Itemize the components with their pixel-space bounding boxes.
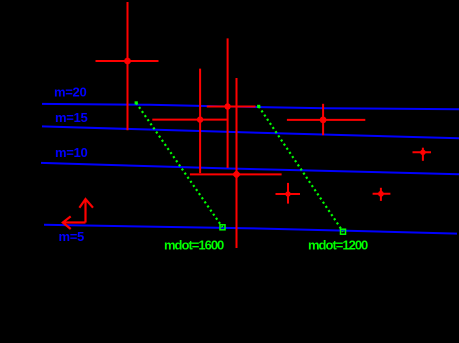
model line m=20 (42, 104, 459, 109)
data point P3 (224, 103, 230, 109)
start marker mdot=1600 (135, 101, 138, 104)
up arrow shaft (84, 199, 86, 223)
data point P5 (320, 117, 327, 124)
data point P2 error bars (199, 69, 201, 174)
data point P6 (420, 150, 426, 156)
data point P4 error bars (236, 78, 238, 248)
model line m=10 (41, 163, 459, 174)
data point P5 error bars (322, 104, 324, 135)
data point P8 error bars (380, 188, 382, 201)
data point P7 error bars (287, 183, 289, 204)
svg-text:m=20: m=20 (54, 85, 86, 100)
data point P7 (285, 191, 290, 196)
data point P6 error bars (422, 148, 424, 161)
data point P1 (124, 58, 131, 65)
svg-text:mdot=1200: mdot=1200 (308, 238, 368, 253)
dotted track mdot=1200 (259, 106, 343, 231)
svg-text:m=10: m=10 (55, 145, 87, 160)
dotted track mdot=1600 (136, 103, 222, 227)
data point P8 (378, 191, 384, 197)
start marker mdot=1200 (257, 105, 260, 108)
data point P3 error bars (227, 38, 229, 168)
end marker mdot=1600 (220, 225, 225, 230)
svg-text:m=5: m=5 (59, 229, 85, 244)
model line m=5 (44, 225, 457, 234)
data point P2 (197, 116, 203, 122)
up arrow head (79, 199, 93, 208)
svg-text:m=15: m=15 (55, 110, 87, 125)
svg-text:mdot=1600: mdot=1600 (164, 238, 224, 253)
end marker mdot=1200 (341, 229, 346, 234)
data point P1 error bars (127, 2, 129, 130)
data point P4 diamond (232, 170, 241, 179)
left arrow head (63, 216, 71, 229)
model line m=15 (42, 126, 459, 138)
left arrow shaft (63, 221, 86, 223)
